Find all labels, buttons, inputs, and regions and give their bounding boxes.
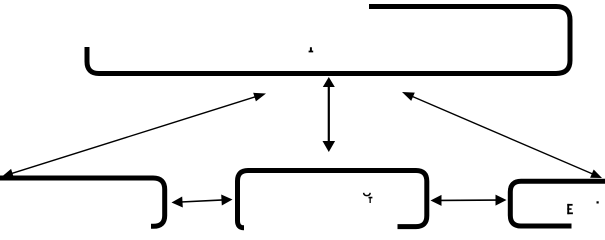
left diagonal upper-right head [253,93,266,102]
right diagonal double arrow shaft (top box to right box) [411,96,593,174]
vertical double arrow shaft (top box to middle box) [328,85,330,143]
horizontal double arrow shaft (left box to middle box) [181,200,223,202]
small speck near right box top [597,201,599,203]
middle-right arrow right head [496,195,507,206]
tiny text remnant glyph inside top box [309,47,314,52]
letter E remnant inside right box [567,204,573,214]
right diagonal upper-left head [402,92,415,101]
horizontal double arrow shaft (middle box to right box) [440,199,497,201]
bottom-left box (cut off at left and bottom) [0,178,165,226]
vertical double arrow up head [323,77,335,87]
top box (partially drawn rounded rectangle) [87,7,570,74]
left-middle arrow left head [172,197,183,208]
left diagonal lower-left head [2,169,14,178]
bottom-middle box (bottom edge partially erased) [238,171,427,228]
left-middle arrow right head [221,195,232,206]
middle-right arrow left head [431,195,442,206]
text remnant 7-like stroke inside middle box [369,197,373,203]
vertical double arrow down head [323,141,336,152]
left diagonal double arrow shaft (top box to left box) [11,97,256,174]
bottom-right box (cut off at right) [510,181,605,226]
text remnant breve mark inside middle box [364,193,371,196]
right diagonal lower-right head [590,170,602,179]
